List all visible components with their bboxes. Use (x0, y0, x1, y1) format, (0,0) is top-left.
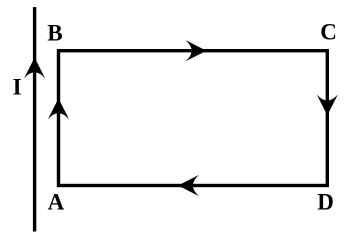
arrowhead: right on top side B to C (186, 40, 207, 61)
svg-text:C: C (320, 19, 337, 44)
svg-text:D: D (317, 189, 334, 214)
svg-text:I: I (13, 74, 22, 99)
loop ABCD: rectangular circuit loop (59, 51, 328, 186)
arrowhead: left on bottom side D to A (178, 175, 199, 196)
svg-text:A: A (48, 189, 65, 214)
arrowhead: up on left side A to B (48, 98, 69, 119)
arrowhead: down on right side C to D (317, 94, 338, 115)
svg-text:B: B (47, 21, 62, 46)
wire: long straight current-carrying wire (33, 7, 36, 232)
arrowhead: current direction I (up) on straight wire (24, 58, 45, 79)
